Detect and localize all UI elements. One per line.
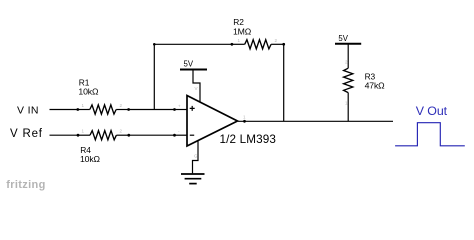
pin number minus input of U1 bbox=[178, 129, 180, 134]
V Out pulse waveform bbox=[395, 123, 465, 146]
wire V Ref to R4 bbox=[50, 134, 79, 136]
wire V IN to R1 bbox=[50, 109, 78, 111]
svg-text:G: G bbox=[194, 154, 198, 159]
svg-text:V: V bbox=[195, 86, 198, 91]
svg-text:fritzing: fritzing bbox=[6, 179, 45, 191]
wire R4 to op-amp minus input bbox=[129, 134, 175, 136]
op-amp U1 1/2 LM393 bbox=[173, 71, 246, 174]
wire feedback vertical (node A) bbox=[153, 43, 156, 110]
svg-text:5V: 5V bbox=[338, 34, 348, 43]
pin number 1 of R3 bbox=[345, 60, 348, 65]
pin number gnd of U1 bbox=[194, 154, 198, 159]
fritzing watermark bbox=[6, 179, 45, 191]
pin number 2 of R1 bbox=[120, 103, 123, 108]
svg-text:V Out: V Out bbox=[416, 104, 448, 118]
svg-text:47kΩ: 47kΩ bbox=[365, 81, 386, 91]
svg-text:1MΩ: 1MΩ bbox=[233, 26, 252, 36]
wire R1 to op-amp plus input bbox=[129, 109, 175, 111]
svg-text:+: + bbox=[178, 104, 181, 109]
label R1 10kΩ bbox=[78, 77, 99, 96]
wire R2 down to output net bbox=[283, 44, 285, 121]
ground bbox=[181, 174, 205, 184]
pin number 1 of R1 bbox=[82, 103, 85, 108]
resistor R1 bbox=[76, 105, 130, 114]
node V IN label bbox=[17, 104, 39, 116]
resistor R3 bbox=[344, 44, 353, 122]
svg-text:V IN: V IN bbox=[17, 104, 39, 116]
power 5V supply for R3 bbox=[335, 34, 361, 44]
pin number plus input of U1 bbox=[178, 104, 181, 109]
pin number out of U1 bbox=[243, 115, 246, 120]
svg-text:10kΩ: 10kΩ bbox=[80, 154, 101, 164]
label R4 10kΩ bbox=[80, 145, 101, 164]
resistor R4 bbox=[77, 131, 131, 140]
node V Ref label bbox=[10, 128, 43, 140]
pin number 2 of R3 bbox=[345, 101, 348, 106]
svg-text:5V: 5V bbox=[184, 59, 194, 68]
pin number 1 of R2 bbox=[238, 38, 241, 43]
svg-text:10kΩ: 10kΩ bbox=[78, 87, 99, 97]
svg-text:V Ref: V Ref bbox=[10, 128, 43, 140]
node V Out label bbox=[416, 104, 448, 118]
svg-text:1/2 LM393: 1/2 LM393 bbox=[220, 133, 277, 146]
label R3 47kΩ bbox=[365, 72, 386, 91]
power 5V supply for op-amp bbox=[180, 59, 207, 69]
pin number 2 of R2 bbox=[275, 38, 278, 43]
wire output net bbox=[238, 120, 393, 122]
label 1/2 LM393 bbox=[220, 133, 277, 146]
label R2 1MΩ bbox=[233, 17, 252, 36]
wire top to R2 bbox=[154, 43, 232, 45]
pin number 1 of R4 bbox=[82, 129, 85, 134]
pin number power of U1 bbox=[195, 86, 198, 91]
pin number 2 of R4 bbox=[120, 129, 123, 134]
resistor R2 bbox=[231, 40, 286, 49]
